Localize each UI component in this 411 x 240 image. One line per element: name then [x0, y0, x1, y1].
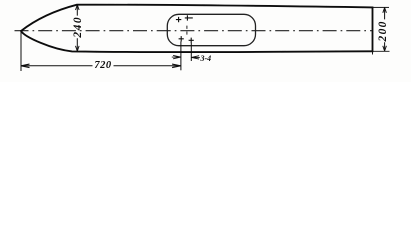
dimension 240: top arrowhead [76, 5, 80, 10]
dimension 720: dimension line [21, 65, 181, 67]
dimension 200: bottom arrowhead [383, 46, 387, 51]
dimension 3-4: left arrow (outside, pointing right) [172, 55, 181, 58]
dimension 200: bottom extension line [373, 51, 390, 54]
cross B (lower-right screw mark) [189, 38, 194, 43]
svg-text:240: 240 [72, 16, 84, 39]
svg-text:720: 720 [94, 60, 112, 71]
stadium cut-out (rounded-rect opening) [167, 14, 255, 45]
dimension 200: top arrowhead [383, 8, 387, 13]
dimension 200: top extension line [373, 6, 389, 8]
dimension 240: bottom arrowhead [76, 46, 80, 51]
dimension 200: dimension line [384, 8, 386, 51]
dimension 3-4: right arrow (outside, pointing left) [192, 56, 200, 59]
cross D (upper-right screw mark, longer right arm) [185, 15, 193, 20]
dimension 720: left arrowhead [21, 64, 29, 67]
body outline (plan view of float/ski) [21, 5, 373, 52]
cross A (lower-left screw mark) [179, 36, 184, 41]
dimension 720: right arrowhead [172, 64, 180, 67]
dimension 3-4: extension line L1 (from cross A) [180, 42, 182, 71]
vertical group axis (short dash-dot through hole group) [186, 26, 188, 35]
centerline (horizontal dash-dot axis) [15, 30, 373, 32]
svg-text:200: 200 [377, 20, 389, 42]
dimension 3-4: extension line L2 (from cross B) [190, 43, 192, 61]
dimension 720: extension line from nose tip [20, 32, 22, 72]
svg-text:3-4: 3-4 [199, 54, 211, 63]
dimension 240: dimension line [76, 5, 78, 51]
cross C (upper-left screw mark) [176, 17, 181, 22]
